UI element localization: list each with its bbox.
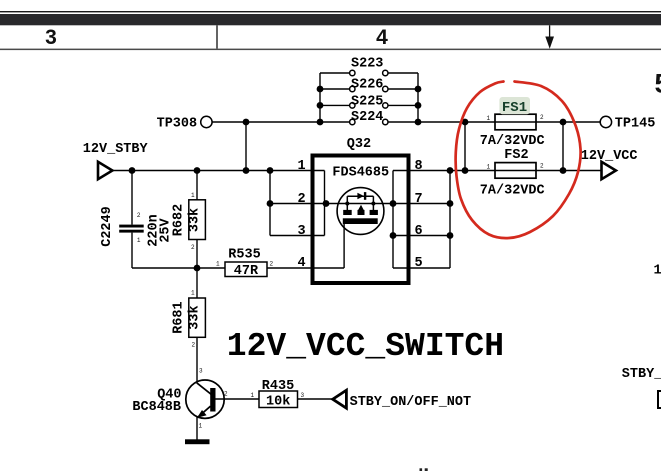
svg-text:7: 7 — [415, 192, 423, 207]
svg-text:S224: S224 — [351, 110, 383, 125]
svg-text:TP308: TP308 — [157, 116, 198, 131]
svg-text:Q32: Q32 — [347, 137, 371, 152]
svg-text:2: 2 — [192, 342, 196, 349]
svg-text:R435: R435 — [262, 379, 294, 394]
test point TP308 — [201, 116, 212, 127]
svg-text:3: 3 — [301, 392, 305, 399]
sheet border gray line — [0, 49, 661, 51]
svg-text:2: 2 — [298, 192, 306, 207]
wire: pin 3 — [270, 235, 325, 237]
svg-text:BC848B: BC848B — [132, 400, 181, 415]
svg-text:2: 2 — [270, 261, 274, 268]
svg-text:1: 1 — [487, 164, 491, 171]
wire: jumper S226 row — [320, 88, 350, 90]
svg-text:12V_VCC_SWITCH: 12V_VCC_SWITCH — [227, 328, 504, 365]
svg-text:5: 5 — [415, 256, 423, 271]
transistor Q40 BC848B — [132, 368, 228, 430]
Q32 pin numbers — [298, 159, 423, 271]
svg-text:R682: R682 — [171, 204, 186, 236]
wire: fuse left vertical — [464, 122, 466, 171]
svg-text:2: 2 — [540, 163, 544, 170]
port 12V_STBY — [83, 142, 149, 179]
wire: jumper S223 row — [320, 72, 350, 74]
wire: pins 1-3 tie inside Q32 — [324, 171, 326, 236]
wire: R682 bottom lead — [196, 240, 198, 269]
resistor R681 33k — [171, 290, 205, 349]
svg-text:STBY_ON: STBY_ON — [622, 367, 661, 382]
clipped component box bottom right — [658, 391, 661, 408]
svg-text:C2249: C2249 — [100, 206, 115, 247]
solder jumper S225 pads — [350, 103, 355, 108]
fuse FS2 7A/32VDC — [480, 148, 545, 198]
red highlight circle around fuses — [456, 82, 581, 239]
svg-text:1: 1 — [487, 115, 491, 122]
fuse FS1 7A/32VDC — [480, 97, 545, 149]
svg-text:2: 2 — [540, 114, 544, 121]
svg-text:S226: S226 — [351, 77, 383, 92]
wire: gate net horizontal — [132, 267, 225, 269]
svg-text:8: 8 — [415, 159, 423, 174]
wire: net top rail right segment through FS1 to TP145 — [388, 121, 600, 123]
wire: Q40 emitter to ground — [196, 416, 198, 440]
svg-text:FDS4685: FDS4685 — [332, 165, 389, 180]
wire: C2249 top lead — [131, 171, 133, 225]
wire: 12V_STBY rail — [112, 170, 325, 172]
svg-text:12: 12 — [654, 263, 661, 278]
sheet border thin top line — [0, 11, 661, 12]
wire: pin 2 — [270, 203, 450, 205]
wire: right rail pins 5-8 — [449, 171, 451, 269]
jumper right rail — [417, 73, 419, 122]
ground — [185, 439, 210, 444]
jumper left rail — [319, 73, 321, 122]
sheet title bar — [0, 14, 661, 25]
wire: R682 top lead — [196, 171, 198, 200]
svg-text:12V_VCC: 12V_VCC — [581, 149, 638, 164]
svg-text:2: 2 — [137, 212, 141, 219]
wire: net TP308 top rail left segment — [213, 121, 350, 123]
wire: Q40 base to R435 — [216, 398, 260, 400]
wire: R681 top lead — [196, 268, 198, 298]
transistor Q32 FDS4685 package outline — [313, 137, 409, 283]
wire: R535 to Q32 pin 4 — [267, 267, 344, 269]
wire: pin 5 — [393, 267, 450, 269]
resistor R682 33k — [171, 192, 205, 251]
svg-text:1: 1 — [298, 159, 306, 174]
svg-text:2: 2 — [224, 391, 228, 398]
svg-text:1: 1 — [216, 261, 220, 268]
Q32 MOSFET symbol — [337, 188, 384, 235]
svg-text:4: 4 — [298, 256, 306, 271]
wire: jumper S225 row — [320, 104, 350, 106]
wire: pin 6 — [393, 235, 450, 237]
wire: vertical TP308 rail to 12V_STBY rail — [245, 122, 247, 171]
margin down arrow — [545, 25, 554, 49]
svg-text:6: 6 — [415, 224, 423, 239]
wire: R435 to port — [298, 398, 334, 400]
wire: pins 5-8 tie inside Q32 — [392, 171, 394, 269]
port STBY_ON/OFF_NOT — [333, 390, 471, 410]
svg-text:S225: S225 — [351, 94, 383, 109]
test point TP145 — [600, 116, 611, 127]
port 12V_VCC — [581, 149, 638, 179]
wire: fuse right vertical — [562, 122, 564, 171]
svg-text:3: 3 — [45, 26, 57, 49]
wire: pin 8 rail to 12V_VCC through FS2 — [393, 170, 601, 172]
tiny bottom marks — [420, 468, 423, 471]
solder jumper S226 pads — [350, 86, 355, 91]
wire: R681 to Q40 collector — [196, 337, 198, 382]
svg-text:1: 1 — [199, 423, 203, 430]
svg-text:TP145: TP145 — [615, 116, 656, 131]
svg-text:2: 2 — [191, 244, 195, 251]
wire: gate vertical inside Q32 — [343, 223, 345, 268]
svg-text:R681: R681 — [171, 301, 186, 333]
svg-text:FS2: FS2 — [504, 148, 528, 163]
svg-text:5: 5 — [655, 69, 661, 99]
capacitor C2249 — [100, 206, 174, 247]
svg-text:R535: R535 — [228, 248, 260, 263]
svg-text:1: 1 — [251, 392, 255, 399]
column divider — [216, 25, 218, 48]
resistor R535 47R — [216, 248, 274, 279]
svg-text:3: 3 — [199, 368, 203, 375]
svg-text:S223: S223 — [351, 57, 383, 72]
svg-text:12V_STBY: 12V_STBY — [83, 142, 149, 157]
svg-text:1: 1 — [191, 192, 195, 199]
svg-text:10k: 10k — [266, 394, 290, 409]
svg-text:33k: 33k — [187, 305, 202, 329]
svg-text:4: 4 — [376, 26, 388, 49]
wire: C2249 bottom lead — [131, 233, 133, 268]
resistor R435 10k — [251, 379, 305, 410]
svg-text:33k: 33k — [187, 208, 202, 232]
svg-text:FS1: FS1 — [502, 100, 527, 116]
svg-text:7A/32VDC: 7A/32VDC — [480, 134, 545, 149]
svg-text:1: 1 — [137, 237, 141, 244]
svg-text:7A/32VDC: 7A/32VDC — [480, 183, 545, 198]
svg-text:STBY_ON/OFF_NOT: STBY_ON/OFF_NOT — [350, 395, 472, 410]
svg-text:47R: 47R — [234, 264, 259, 279]
solder jumper S223 pads — [350, 70, 355, 75]
svg-text:1: 1 — [191, 290, 195, 297]
wire: left rail pins 1-3 — [269, 171, 271, 236]
solder jumper S224 pads — [350, 119, 355, 124]
svg-text:3: 3 — [298, 224, 306, 239]
